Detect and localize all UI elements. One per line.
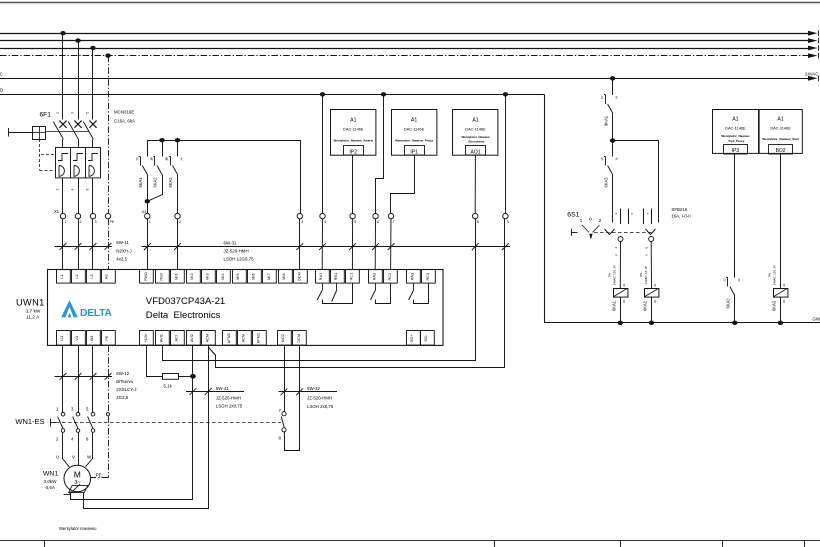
- wire 24VAC to 9KA1: [612, 78, 614, 95]
- wire GND to X3:6: [376, 94, 384, 213]
- contact 6KA3: [612, 141, 614, 157]
- svg-text:6W-31: 6W-31: [224, 240, 237, 245]
- wire X3:5 to RC1: [351, 219, 353, 270]
- svg-text:16A, I-0-II: 16A, I-0-II: [671, 214, 690, 219]
- VFD relay contact RA1/RB1/RC1: [322, 283, 324, 290]
- svg-text:RC1: RC1: [349, 273, 354, 281]
- svg-text:PE: PE: [96, 473, 102, 478]
- svg-text:IP3: IP3: [732, 148, 740, 154]
- svg-text:_Tryb_Pracy: _Tryb_Pracy: [725, 139, 744, 143]
- svg-text:24VAC, 12A, 3P: 24VAC, 12A, 3P: [613, 265, 617, 285]
- 6S1 moving contact pole 2: [646, 229, 656, 235]
- svg-text:6KA2: 6KA2: [643, 300, 648, 311]
- 6S1 moving contact pole 1: [605, 229, 615, 235]
- aux contact pin 7: [282, 412, 286, 416]
- svg-text:L2: L2: [74, 274, 79, 278]
- junction 24VAC tap: [610, 76, 615, 80]
- wire GND bottom rail: [544, 322, 820, 324]
- svg-text:MI6: MI6: [251, 273, 256, 280]
- svg-text:DAC-1146E: DAC-1146E: [725, 126, 746, 131]
- svg-text:Wentylator_Nawiew: Wentylator_Nawiew: [721, 134, 750, 138]
- VFD terminal RC3: [422, 270, 436, 284]
- wire AO1 to X3:8: [474, 155, 476, 213]
- contact 6KA2 (feedback): [734, 262, 736, 278]
- module A1 IP3 Wentylator_Nawiew_Tryb_Pracy: [713, 110, 760, 154]
- wire DCM feed rail: [147, 141, 300, 214]
- junction L3 tap: [90, 46, 95, 50]
- terminal X3:7: [388, 213, 393, 218]
- contact 6KA1: [147, 140, 149, 156]
- svg-text:MI1: MI1: [174, 273, 179, 280]
- terminal X1:1: [60, 213, 65, 218]
- VFD terminal MI2: [187, 270, 201, 284]
- wire X3:9 to analog rail B: [209, 219, 505, 368]
- svg-text:RC2: RC2: [387, 273, 392, 281]
- svg-text:RB1: RB1: [333, 273, 338, 281]
- frame bottom border with title block ticks: [0, 540, 820, 542]
- wire +10V to resistor: [147, 346, 163, 377]
- svg-text:6KA2: 6KA2: [153, 177, 158, 188]
- breaker mechanical link: [46, 131, 89, 133]
- svg-text:6: 6: [377, 220, 379, 224]
- module A1 BO2 Wentylator_Nawiew_Start: [759, 110, 803, 154]
- wire 6S1 to coil 6KA2: [650, 242, 652, 289]
- breaker thermal/magnetic unit: [56, 148, 101, 178]
- selector linkage dashed: [594, 232, 652, 234]
- svg-text:24VAC, 7A, 4P: 24VAC, 7A, 4P: [644, 266, 648, 285]
- svg-text:IP1: IP1: [410, 149, 418, 155]
- svg-text:DCM: DCM: [296, 334, 301, 343]
- junction branch to 6S1 pole 2: [610, 138, 615, 142]
- svg-text:SFB216: SFB216: [671, 207, 687, 212]
- svg-text:5: 5: [86, 112, 90, 114]
- svg-text:LSOH 12G0,75: LSOH 12G0,75: [224, 257, 255, 262]
- svg-text:A1: A1: [411, 117, 417, 123]
- svg-text:2: 2: [599, 218, 602, 224]
- switch linkage dashed: [56, 422, 281, 424]
- svg-text:RN: RN: [639, 273, 643, 277]
- svg-text:6S1: 6S1: [567, 212, 579, 219]
- wire 6S1 to coil 6KA1: [619, 242, 621, 289]
- aux contact pin 8: [282, 428, 286, 432]
- svg-text:4x2,5: 4x2,5: [116, 256, 127, 261]
- VFD terminal L1: [57, 270, 71, 284]
- svg-text:6F1: 6F1: [40, 112, 52, 119]
- wire AVI2 to motor PTC: [71, 346, 193, 500]
- wire X3:8 to analog rail A: [163, 219, 476, 361]
- junction coil 6KA2 to GND: [649, 321, 654, 325]
- svg-text:U: U: [56, 455, 59, 460]
- wire PE dash-dot drop: [108, 56, 110, 214]
- wire X3:6 to RA2: [374, 219, 376, 270]
- VFD terminal RA3: [407, 270, 421, 284]
- VFD terminal AVI2: [187, 331, 201, 346]
- VFD terminal ACI: [171, 331, 185, 346]
- svg-text:AFM1: AFM1: [226, 333, 231, 343]
- svg-text:6W-32: 6W-32: [307, 386, 320, 391]
- wire X3:7 to RC2: [390, 219, 392, 270]
- VFD terminal AVI1: [156, 331, 170, 346]
- svg-text:ACM: ACM: [241, 334, 246, 343]
- motor WN1 3~: [64, 465, 91, 492]
- contact 9KA1: [612, 79, 614, 95]
- svg-text:6,6A: 6,6A: [46, 485, 56, 490]
- svg-text:AO1: AO1: [470, 149, 480, 155]
- svg-text:WN1-ES: WN1-ES: [15, 417, 44, 426]
- svg-text:9: 9: [507, 220, 509, 224]
- svg-text:6W-11: 6W-11: [116, 240, 129, 245]
- svg-text:DCM: DCM: [297, 272, 302, 281]
- terminal X1:PE: [105, 213, 110, 218]
- 6S1 terminal pole 2: [649, 237, 654, 242]
- VFD terminal RC1: [346, 270, 360, 284]
- wire GND right drop: [544, 94, 546, 322]
- svg-text:1: 1: [580, 218, 583, 224]
- svg-text:IP2: IP2: [350, 149, 358, 155]
- svg-text:L3: L3: [89, 274, 94, 278]
- VFD terminal MO2: [278, 331, 292, 346]
- svg-text:A1: A1: [732, 117, 738, 123]
- wire switch to motor V: [78, 432, 80, 465]
- wire L2 to breaker: [78, 41, 80, 120]
- cable marker 6W-32 JZ-520-HMH LSOH 2x0,75: [279, 391, 338, 393]
- wire X1 to VFD L1: [62, 219, 64, 270]
- svg-text:6KA3: 6KA3: [772, 300, 777, 311]
- terminal X3:6: [373, 213, 378, 218]
- module A1 IP2 Wentylator_Nawiew_Awaria: [331, 110, 376, 156]
- motor PTC thermistor: [69, 485, 88, 492]
- svg-text:Wentylator nawiewu: Wentylator nawiewu: [59, 526, 97, 531]
- VFD terminal RB1: [331, 270, 345, 284]
- svg-text:JZ-520-HMH: JZ-520-HMH: [216, 395, 241, 400]
- VFD U1 Delta VFD037CP43A-21 enclosure: [48, 270, 444, 346]
- svg-text:3: 3: [95, 220, 97, 224]
- svg-text:6KA1: 6KA1: [138, 177, 143, 188]
- svg-text:MCN316E: MCN316E: [114, 110, 134, 115]
- svg-text:PE: PE: [110, 220, 115, 224]
- wire ACM branch diagonal: [209, 347, 216, 355]
- terminal X3:3: [297, 213, 302, 218]
- wire ACM to motor PTC: [84, 346, 209, 509]
- terminal X3:9: [503, 213, 508, 218]
- breaker dashed trip links: [39, 139, 41, 170]
- svg-text:3~: 3~: [75, 480, 81, 486]
- VFD terminal RC2: [384, 270, 398, 284]
- svg-text:5: 5: [354, 220, 356, 224]
- VFD terminal U1: [57, 331, 71, 346]
- junction 6KA2a top: [159, 138, 164, 142]
- junction coil 6KA3 to GND: [778, 321, 783, 325]
- svg-text:V1: V1: [74, 336, 79, 341]
- svg-text:3: 3: [301, 220, 303, 224]
- terminal X1:2: [75, 213, 80, 218]
- terminal X3:1: [145, 213, 150, 218]
- bus L1: [0, 33, 810, 35]
- wire BO2 to coil 6KA3: [780, 154, 782, 289]
- PE pass-through marker: [106, 413, 109, 416]
- VFD terminal MI4: [217, 270, 231, 284]
- relay coil 6KA2: [645, 289, 659, 298]
- wire X3:2 to MI1: [177, 219, 179, 270]
- bus L3: [0, 48, 810, 50]
- svg-text:DAC-1146E: DAC-1146E: [404, 126, 425, 131]
- VFD terminal DCM: [294, 270, 308, 284]
- VFD terminal V1: [72, 331, 86, 346]
- svg-text:A1: A1: [472, 117, 478, 123]
- VFD terminal MI3: [202, 270, 216, 284]
- svg-text:MI8: MI8: [281, 273, 286, 280]
- VFD terminal MI7: [263, 270, 277, 284]
- svg-text:W1: W1: [89, 335, 94, 341]
- wire GND to X3:4: [322, 94, 324, 213]
- svg-text:UWN1: UWN1: [16, 298, 45, 308]
- VFD terminal PE: [102, 331, 116, 346]
- VFD terminal FWD: [140, 270, 154, 284]
- wire X1 to VFD L3: [92, 219, 94, 270]
- svg-text:ACI: ACI: [174, 335, 179, 342]
- junction contact 6KA2 to GND: [732, 321, 737, 325]
- svg-text:4: 4: [71, 188, 75, 190]
- terminal X3:2: [175, 213, 180, 218]
- VFD terminal L2: [72, 270, 86, 284]
- 6S1 contact bars: [620, 209, 622, 225]
- svg-text:6KA3: 6KA3: [603, 177, 608, 188]
- bus continuation marks at sheet edge: [818, 30, 820, 36]
- switch handle: [50, 419, 52, 427]
- relay coil 6KA1: [614, 289, 628, 298]
- svg-text:GND: GND: [0, 88, 3, 93]
- VFD terminal ACM: [238, 331, 252, 346]
- svg-text:11,2 A: 11,2 A: [26, 315, 40, 321]
- svg-text:_Sterowanie: _Sterowanie: [466, 140, 485, 144]
- junction GND to X3:6: [381, 92, 386, 96]
- VFD relay contact RA2/RC2: [375, 283, 377, 290]
- junction L2 tap: [75, 38, 80, 42]
- svg-text:6: 6: [86, 188, 90, 190]
- svg-text:2: 2: [179, 220, 181, 224]
- svg-text:W: W: [87, 455, 92, 460]
- module A1 AO1 Wentylator_Nawiew_Sterowanie: [453, 110, 498, 156]
- frame top border: [0, 2, 820, 4]
- VFD terminal MI8: [279, 270, 293, 284]
- svg-text:FWD: FWD: [143, 272, 148, 281]
- wire aux contact to DCM: [285, 346, 300, 451]
- svg-text:ACM: ACM: [204, 334, 209, 343]
- VFD terminal DCM: [293, 331, 307, 346]
- svg-text:AFM2: AFM2: [255, 333, 260, 343]
- wire GND to X3:9: [505, 94, 507, 213]
- svg-text:N2XH-J: N2XH-J: [116, 248, 131, 253]
- VFD terminal PE: [102, 270, 116, 284]
- svg-text:VFD037CP43A-21: VFD037CP43A-21: [146, 296, 225, 307]
- svg-text:24VAC: 24VAC: [0, 72, 3, 77]
- svg-text:3,7 kW: 3,7 kW: [26, 308, 41, 314]
- VFD terminal MI5: [233, 270, 247, 284]
- aux contact blade: [281, 416, 284, 427]
- contact 6KA2 (b): [177, 140, 179, 156]
- svg-text:1: 1: [65, 220, 67, 224]
- VFD terminal REV: [156, 270, 170, 284]
- svg-text:RC3: RC3: [425, 273, 430, 281]
- svg-text:4G2,5: 4G2,5: [116, 395, 129, 400]
- svg-text:2: 2: [80, 220, 82, 224]
- resistor 5,1k: [163, 374, 179, 380]
- svg-text:Wentylator_Nawiew_Praca: Wentylator_Nawiew_Praca: [395, 138, 433, 142]
- cable marker 6W-41 JZ-520-HMH LSOH 2x0,75: [186, 391, 244, 393]
- junction coil 6KA1 to GND: [618, 321, 623, 325]
- svg-text:MI3: MI3: [204, 273, 209, 280]
- wire W1 to switch: [92, 346, 94, 413]
- svg-text:RN: RN: [768, 273, 772, 277]
- svg-text:C16A, 6kA: C16A, 6kA: [114, 119, 135, 124]
- VFD terminal RA1: [316, 270, 330, 284]
- wire X3:3 to DCM: [299, 219, 301, 270]
- svg-text:DAC-1146E: DAC-1146E: [343, 126, 364, 131]
- svg-text:24VAC, 12A, 3P: 24VAC, 12A, 3P: [773, 265, 777, 285]
- svg-text:6W-12: 6W-12: [116, 371, 129, 376]
- relay coil 6KA3: [774, 289, 788, 298]
- wire IP2 to X3:5: [352, 155, 354, 213]
- svg-text:1: 1: [149, 220, 151, 224]
- svg-text:7: 7: [393, 220, 395, 224]
- bus N dash-dot: [0, 55, 810, 57]
- wire X1 to VFD L2: [78, 219, 80, 270]
- svg-text:LSOH 2x0,75: LSOH 2x0,75: [216, 404, 243, 409]
- svg-text:SG-: SG-: [423, 334, 428, 342]
- terminal X3:5: [350, 213, 355, 218]
- bus GND: [0, 94, 544, 96]
- svg-text:A1: A1: [777, 117, 783, 123]
- svg-text:Wentylator_Nawiew_Start: Wentylator_Nawiew_Start: [762, 137, 799, 141]
- svg-text:RA1: RA1: [318, 273, 323, 281]
- svg-text:MO2: MO2: [280, 334, 285, 342]
- svg-text:0: 0: [589, 217, 592, 223]
- wire X3:1 to FWD: [147, 219, 149, 270]
- svg-text:3,0kW: 3,0kW: [44, 479, 58, 484]
- svg-text:MI7: MI7: [266, 273, 271, 280]
- svg-text:+10V: +10V: [143, 333, 148, 343]
- wire L3 to breaker: [92, 48, 94, 120]
- svg-text:1: 1: [56, 112, 60, 114]
- svg-text:6KA1: 6KA1: [611, 300, 616, 311]
- svg-text:8: 8: [477, 220, 479, 224]
- svg-text:2XSLCY-J: 2XSLCY-J: [116, 387, 136, 392]
- svg-text:5,1k: 5,1k: [164, 383, 173, 388]
- wire U1 to switch: [62, 346, 64, 413]
- wire PE to motor dash-dot: [108, 346, 110, 478]
- svg-text:Delta Electronics: Delta Electronics: [146, 310, 221, 321]
- svg-text:MI5: MI5: [235, 273, 240, 280]
- wire resistor to AVI2 junction: [178, 376, 193, 378]
- svg-text:9KA1: 9KA1: [603, 115, 608, 126]
- wire V1 to switch: [78, 346, 80, 413]
- svg-text:AVI1: AVI1: [158, 334, 163, 342]
- VFD terminal +10V: [140, 331, 154, 346]
- wire switch to motor W: [86, 432, 93, 466]
- svg-text:RA2: RA2: [371, 273, 376, 281]
- bus 24VAC: [0, 78, 810, 80]
- wire X3:4 to RA1: [321, 219, 323, 270]
- wire L1 to breaker: [62, 33, 64, 119]
- VFD terminal SG+: [407, 331, 421, 346]
- cable marker 6W-12 BiTservo 2XSLCY-J 4G2,5: [55, 376, 113, 378]
- 6S1 terminal pole 1: [618, 237, 623, 242]
- svg-text:U1: U1: [59, 336, 64, 341]
- svg-text:DAC-1146E: DAC-1146E: [770, 126, 791, 131]
- svg-text:24VAC: 24VAC: [805, 72, 818, 77]
- svg-text:Wentylator_Nawiew_Awaria: Wentylator_Nawiew_Awaria: [334, 138, 374, 142]
- VFD terminal MI6: [248, 270, 262, 284]
- svg-text:DAC-1146E: DAC-1146E: [465, 126, 486, 131]
- svg-text:3: 3: [71, 112, 75, 114]
- svg-text:JZ-520-HMH: JZ-520-HMH: [307, 396, 332, 401]
- svg-text:REV: REV: [158, 272, 163, 280]
- wire MO2 to aux contact pin 7: [284, 346, 286, 412]
- svg-text:LSOH 2x0,75: LSOH 2x0,75: [307, 404, 334, 409]
- bus L2: [0, 40, 810, 42]
- svg-text:Wentylator_Nawiew: Wentylator_Nawiew: [461, 135, 490, 139]
- svg-text:WN1: WN1: [43, 470, 58, 477]
- VFD terminal ACM: [202, 331, 216, 346]
- svg-text:6KA2: 6KA2: [726, 298, 731, 309]
- cable marker 6W-11 N2XH-J 4x2,5: [55, 246, 112, 248]
- junction L1 tap: [60, 31, 65, 35]
- VFD relay contact RA3/RC3: [413, 283, 415, 290]
- svg-text:PE: PE: [104, 335, 109, 341]
- svg-text:MI2: MI2: [189, 273, 194, 280]
- VFD terminal L3: [87, 270, 101, 284]
- module A1 IP1 Wentylator_Nawiew_Praca: [392, 110, 437, 156]
- junction GND to X3:9: [503, 92, 508, 96]
- svg-text:RA3: RA3: [410, 273, 415, 281]
- VFD terminal MI1: [171, 270, 185, 284]
- svg-text:AVI2: AVI2: [189, 334, 194, 342]
- junction FWD wires: [145, 199, 150, 203]
- svg-text:BO2: BO2: [776, 148, 786, 154]
- wire IP1 to X3:7: [391, 155, 415, 213]
- svg-text:4: 4: [324, 220, 326, 224]
- svg-text:L1: L1: [59, 274, 64, 278]
- junction 6KA2b top: [175, 138, 180, 142]
- terminal X3:8: [473, 213, 478, 218]
- junction N tap: [105, 53, 110, 57]
- svg-text:SG+: SG+: [409, 334, 414, 343]
- svg-text:GND: GND: [813, 316, 820, 321]
- svg-text:M: M: [74, 470, 81, 480]
- Delta logo: [61, 300, 78, 317]
- terminal X3:4: [320, 213, 325, 218]
- breaker release box: [33, 127, 46, 140]
- wire switch to motor U: [63, 432, 70, 467]
- wire branch to 6S1 pole 2: [613, 141, 659, 223]
- cable marker 6W-31 JZ-520-HMH LSOH 12G0,75: [142, 246, 511, 248]
- VFD terminal RA2: [369, 270, 383, 284]
- VFD terminal AFM1: [223, 331, 237, 346]
- VFD terminal W1: [87, 331, 101, 346]
- svg-text:X3: X3: [142, 209, 148, 214]
- svg-text:RN: RN: [608, 273, 612, 277]
- selector head: [572, 232, 578, 234]
- svg-text:6KA2: 6KA2: [168, 177, 173, 188]
- breaker release terminal: [8, 128, 10, 137]
- VFD terminal AFM2: [253, 331, 267, 346]
- svg-text:6W-41: 6W-41: [216, 386, 229, 391]
- terminal X1:3: [90, 213, 95, 218]
- svg-text:PE: PE: [104, 274, 109, 280]
- junction AVI2/PTC: [190, 374, 196, 379]
- svg-text:BiTservo: BiTservo: [116, 379, 133, 384]
- svg-text:X1: X1: [54, 209, 60, 214]
